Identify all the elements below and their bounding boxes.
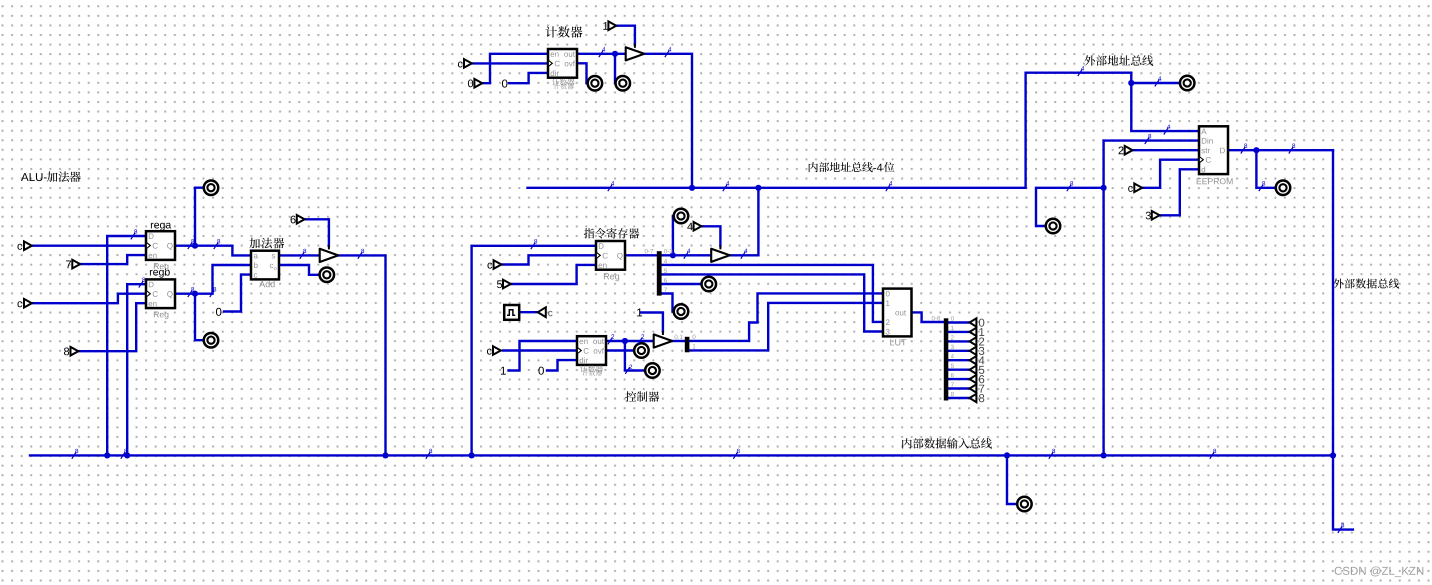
- label 外部地址总线: [1084, 55, 1153, 66]
- wire instr reg Q to splitter: [625, 254, 657, 256]
- bus width label 4 (ext addr): [1078, 66, 1085, 76]
- label Reg under instr: [604, 273, 619, 281]
- wire clock to tunnel c: [519, 311, 538, 313]
- label ALU-加法器: [21, 171, 81, 182]
- wire data bus to instr reg D riser: [472, 246, 596, 456]
- wire EEPROM D probe branch: [1256, 150, 1275, 188]
- wire counter.ovf to probe: [577, 63, 588, 83]
- bus width label 8 (bus 1): [72, 449, 78, 459]
- wire tunnel 4 to instr buffer enable: [702, 226, 721, 245]
- constant 1 controller enable: [501, 367, 506, 375]
- junction Din riser node: [1101, 185, 1107, 191]
- tri-state buffer controller output driver: [654, 331, 673, 348]
- bus width label 8 (rega D): [131, 229, 137, 239]
- register instruction: [596, 241, 625, 270]
- junction splitter 0-3 node: [670, 252, 676, 258]
- junction ctrl out node: [622, 338, 628, 344]
- tunnel c (clock source): [538, 307, 553, 317]
- wire tunnel c to EEPROM C: [1142, 160, 1199, 188]
- wire constant 0 to counter.dir: [509, 73, 548, 83]
- output probe controller value: [645, 363, 660, 378]
- tunnel c (regb clock): [17, 299, 31, 308]
- tunnel 1 (counter driver enable): [603, 21, 616, 30]
- bus width label 8 (D out 1): [1241, 144, 1247, 154]
- register rega: [146, 231, 175, 260]
- wire tunnel c to counter.C: [472, 62, 548, 64]
- tunnel c (rega clock): [17, 241, 31, 250]
- label LUT splitter out 4: [951, 354, 954, 358]
- output probe external address: [1180, 76, 1195, 91]
- label EEPROM under EEPROM: [1197, 178, 1233, 184]
- junction bus-instr D: [469, 452, 475, 458]
- wire splitter bit7 to probe: [662, 294, 674, 312]
- label 控制器 title: [625, 391, 659, 402]
- output probe counter ovf: [588, 76, 603, 91]
- label LUT splitter out 3: [951, 345, 954, 349]
- EEPROM U3: [1199, 126, 1228, 174]
- LUT U2: [883, 289, 912, 337]
- wire rega.Q to adder a: [175, 246, 251, 256]
- label splitter out 0-3: [664, 249, 672, 253]
- tunnel c (counter clock): [458, 59, 472, 68]
- wire LUT splitter bit8 to tunnel 8: [948, 397, 969, 399]
- label 计数器 gray 2a: [580, 365, 603, 372]
- wire ctrl splitter bit0 to LUT in0: [689, 293, 883, 341]
- wire LUT splitter bit1 to tunnel 1: [948, 331, 969, 333]
- tunnel 5: [497, 280, 511, 289]
- wire ctrl counter out probe branch: [625, 341, 645, 371]
- label 计数器 gray 1b: [554, 83, 574, 89]
- label LUT splitter out 7: [951, 382, 954, 386]
- junction bus-rega riser: [104, 452, 110, 458]
- label LUT splitter out 2: [951, 335, 954, 339]
- label ctrl splitter out 1: [693, 344, 696, 348]
- tunnel 8: [64, 347, 78, 356]
- register regb: [146, 279, 175, 308]
- label Add under adder: [259, 281, 274, 288]
- bus width label 8 (D probe): [1259, 181, 1265, 191]
- wire adder carry to probe: [279, 265, 320, 275]
- output probe adder carry: [320, 268, 335, 283]
- wire rega.Q probe branch: [195, 188, 204, 246]
- bus width label 4 (addr 3): [886, 181, 893, 191]
- wire instr buffer out to address bus: [730, 188, 758, 256]
- wire address bus to EEPROM.A: [1131, 73, 1199, 131]
- tunnel 1 (control line): [970, 328, 985, 336]
- splitter instruction register 8-bit: [657, 251, 662, 295]
- wire LUT splitter bit6 to tunnel 6: [948, 378, 969, 380]
- junction bus-EEPROM Din: [1101, 452, 1107, 458]
- wire data bus to rega.D riser: [107, 236, 146, 455]
- wire splitter bit6 to probe: [662, 283, 702, 285]
- bus width label 8 (adder s): [300, 249, 306, 259]
- wire LUT splitter bit2 to tunnel 2: [948, 340, 969, 342]
- label LUT splitter out 1: [951, 326, 954, 330]
- wire tunnel 6 to ALU buffer enable: [305, 219, 329, 246]
- clock CLK: [504, 305, 519, 320]
- junction address bus-instr buffer: [755, 185, 761, 191]
- label rega title: [151, 223, 171, 231]
- wire internal data input bus: [30, 454, 1333, 456]
- label LUT splitter out 5: [951, 364, 954, 368]
- wire ALU buffer out to data bus: [338, 255, 386, 455]
- output probe counter value: [616, 76, 631, 91]
- wire tunnel 3 to EEPROM d: [1160, 169, 1199, 215]
- splitter LUT 9-bit: [944, 318, 949, 400]
- output probe instr low nibble: [674, 209, 689, 224]
- wire LUT splitter bit0 to tunnel 0: [948, 321, 969, 323]
- bus width label 8 (regb D): [139, 278, 145, 288]
- output probe bus data: [1017, 497, 1032, 512]
- wire ctrl splitter bit1 to LUT in1: [689, 303, 883, 351]
- junction bus-regb riser: [124, 452, 130, 458]
- label splitter out 5: [664, 269, 667, 273]
- label splitter out 6: [664, 278, 667, 282]
- tunnel 0 (counter enable): [468, 79, 482, 88]
- wire LUT splitter bit5 to tunnel 5: [948, 369, 969, 371]
- constant 0 controller dir: [538, 367, 543, 375]
- wire splitter bit5 to LUT in3: [662, 274, 883, 331]
- constant 0 counter dir: [502, 79, 507, 87]
- constant 0 adder cin: [216, 308, 221, 316]
- tunnel c (controller clock): [487, 346, 501, 355]
- wire ctrl buffer out to splitter: [672, 340, 685, 342]
- tri-state buffer ALU output driver: [320, 246, 339, 263]
- wire tunnel 8 to regb.en: [79, 303, 146, 351]
- wire constant 1 to ctrl counter en: [509, 341, 578, 371]
- label ctrl splitter out 0: [693, 335, 696, 339]
- wire tunnel 5 to instr reg en: [511, 265, 596, 284]
- wire tunnel c to instr reg C: [502, 255, 596, 264]
- wire counter.out probe branch: [614, 54, 617, 83]
- bus width label 8 (bus 2): [121, 449, 127, 459]
- label 计数器 gray 2b: [582, 370, 602, 376]
- wire tunnel c to rega.C: [32, 244, 146, 246]
- wire tunnel 2 to EEPROM str: [1132, 149, 1199, 151]
- label 内部地址总线-4位: [809, 162, 895, 172]
- wire constant 1 to ctrl buffer enable: [641, 313, 663, 332]
- label ctrl splitter in 0,1: [675, 335, 683, 340]
- wire regb.Q probe branch: [195, 294, 204, 341]
- junction regb.Q node: [192, 291, 198, 297]
- wire splitter bit4 to LUT in2: [662, 265, 883, 322]
- label LUT splitter out 6: [951, 373, 954, 377]
- output probe EEPROM address: [1046, 219, 1061, 234]
- wire adder s to ALU buffer: [279, 254, 319, 256]
- junction rega.Q node: [192, 243, 198, 249]
- label 计数器 gray 1a: [552, 79, 575, 86]
- bus width label 8 (bus 3): [426, 449, 432, 459]
- tri-state buffer counter output driver: [626, 44, 645, 61]
- bus width label 2 (ctrl out 1): [608, 334, 614, 344]
- bus width label 8 (EEPROM Din): [1145, 134, 1151, 144]
- bus width label 8 (regb Q b): [210, 287, 216, 297]
- bus width label 4 (EEPROM A): [1164, 124, 1171, 134]
- wire counter buffer out to address bus: [644, 54, 692, 188]
- junction bus-ALU out: [382, 452, 388, 458]
- junction ext address probe node: [1128, 80, 1134, 86]
- output probe instr bit6: [702, 277, 717, 292]
- wire constant 0 to adder cin: [224, 275, 251, 312]
- wire LUT out to splitter: [912, 312, 944, 322]
- bus width label 4 (counter drv): [665, 47, 672, 57]
- tunnel 7: [66, 260, 80, 269]
- tunnel 3: [1146, 211, 1160, 220]
- junction bus probe tap: [1004, 452, 1010, 458]
- bus width label 8 (regb Q a): [188, 287, 194, 297]
- bus width label 4 (instr drv): [741, 249, 748, 259]
- tunnel c (EEPROM clock): [1128, 184, 1142, 193]
- wire splitter 0-3 probe branch: [673, 216, 674, 255]
- bus width label 4 (addr 1): [608, 181, 615, 191]
- wire data bus to EEPROM Din riser: [1104, 141, 1199, 456]
- tunnel c (instr clock): [487, 260, 501, 269]
- bus width label 8 (bus 4): [1049, 449, 1055, 459]
- wire tunnel 7 to rega.en: [80, 255, 146, 264]
- tunnel 8 (control line): [970, 394, 985, 402]
- label LUT splitter out 0: [951, 316, 954, 320]
- wire regb.Q to adder b: [175, 265, 251, 294]
- bus width label 8 (bus 5): [1210, 449, 1216, 459]
- bus width label 2 (ctrl out 2): [638, 334, 644, 344]
- bus width label 4 (addr 2): [723, 181, 730, 191]
- junction counter out node: [612, 51, 618, 57]
- wire tunnel 1 to counter buffer enable: [616, 26, 635, 45]
- bus width label 4 (instr 0-3): [684, 249, 691, 259]
- tunnel 4: [687, 222, 701, 231]
- wire external address probe branch: [1131, 82, 1180, 84]
- label splitter out 7: [664, 288, 667, 292]
- label LUT splitter in 0-8: [932, 316, 940, 320]
- bus width label 8 (D out 2): [1289, 144, 1295, 154]
- tunnel 3 (control line): [970, 347, 985, 355]
- label 指令寄存器 title: [584, 228, 640, 239]
- output probe controller ovf: [634, 343, 649, 358]
- junction EEPROM D node: [1253, 147, 1259, 153]
- bus width label 8 (rega Q b): [214, 239, 220, 249]
- tunnel 0 (control line): [970, 318, 985, 326]
- bus width label 8 (rega Q a): [188, 239, 194, 249]
- bus width label 8 (bus 3b): [733, 449, 739, 459]
- wire data bus probe branch: [1007, 455, 1017, 504]
- label 加法器 title: [249, 238, 284, 249]
- bus width label 4 (counter out): [599, 47, 606, 57]
- label watermark: [1335, 566, 1424, 577]
- bus width label 8 (ALU out): [358, 249, 364, 259]
- wire ctrl counter out to buffer: [606, 340, 653, 342]
- splitter controller 2-bit: [685, 337, 690, 353]
- wire tunnel 0 to counter.en: [481, 54, 548, 83]
- tunnel 2: [1119, 146, 1133, 155]
- output probe EEPROM data: [1276, 181, 1291, 196]
- label 计数器 title: [546, 26, 583, 37]
- label 内部数据输入总线: [902, 438, 992, 449]
- tunnel 4 (control line): [970, 356, 985, 364]
- bus width label 8 (ext data): [1338, 523, 1344, 533]
- counter controller: [577, 336, 606, 365]
- tunnel 6 (control line): [970, 375, 985, 383]
- label splitter in 0-7: [645, 249, 653, 253]
- wire LUT splitter bit3 to tunnel 3: [948, 350, 969, 352]
- bus width label 2 (ctrl probe): [625, 365, 632, 374]
- wire internal address bus: [528, 73, 1132, 188]
- constant 1 ctrl driver enable: [637, 308, 642, 316]
- wire external data bus: [1333, 150, 1353, 529]
- label regb title: [150, 268, 170, 278]
- bus width label 8 (addr seg): [1067, 181, 1073, 191]
- wire constant 0 to ctrl counter dir: [547, 360, 577, 370]
- wire tunnel c to ctrl counter C: [503, 349, 577, 351]
- label LUT splitter out 8: [951, 392, 954, 396]
- label splitter out 4: [664, 259, 667, 263]
- output probe rega value: [204, 180, 219, 195]
- wire tunnel c to regb.C: [32, 294, 146, 304]
- bus width label 8 (instr D): [531, 239, 537, 249]
- tunnel 6: [291, 215, 305, 224]
- output probe regb value: [204, 333, 219, 348]
- tri-state buffer instruction low-nibble driver: [711, 245, 730, 262]
- counter U1: [548, 49, 577, 78]
- bus width label 4 (ext addr probe): [1155, 76, 1162, 86]
- junction address bus-counter: [689, 185, 695, 191]
- wire EEPROM D to external data bus: [1228, 149, 1333, 151]
- wire ctrl counter ovf to probe: [606, 349, 634, 351]
- wire LUT splitter bit4 to tunnel 4: [948, 359, 969, 361]
- label 外部数据总线: [1333, 278, 1399, 288]
- adder Add: [251, 251, 279, 280]
- wire data bus to regb.D riser: [127, 284, 146, 455]
- tunnel 2 (control line): [970, 337, 985, 345]
- label LUT under LUT: [890, 339, 906, 345]
- output probe instr bit7: [674, 304, 689, 319]
- tunnel 7 (control line): [970, 384, 985, 392]
- label Reg under regb: [154, 311, 169, 319]
- junction bus-external data: [1330, 452, 1336, 458]
- wire counter.out to buffer: [577, 53, 625, 55]
- wire splitter 0-3 to instr buffer: [662, 254, 711, 256]
- tunnel 5 (control line): [970, 366, 985, 374]
- wire LUT splitter bit7 to tunnel 7: [948, 387, 969, 389]
- label Reg under rega: [154, 263, 169, 271]
- wire address bus segment to Din riser: [1036, 188, 1104, 226]
